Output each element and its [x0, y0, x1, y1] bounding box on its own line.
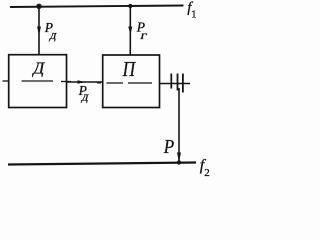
svg-text:P: P: [163, 136, 174, 159]
svg-text:Д: Д: [31, 59, 45, 78]
svg-text:2: 2: [204, 167, 210, 179]
svg-text:П: П: [122, 58, 136, 81]
svg-text:1: 1: [191, 10, 196, 21]
